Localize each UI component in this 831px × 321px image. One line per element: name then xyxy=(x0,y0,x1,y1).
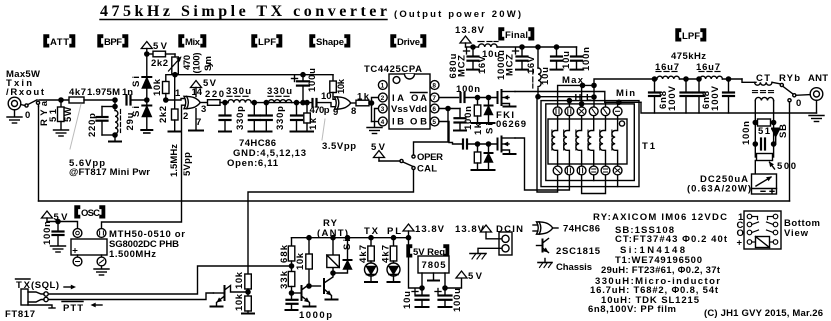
svg-text:100u: 100u xyxy=(452,288,463,312)
capacitor 220p xyxy=(97,107,116,136)
junction BPF tank xyxy=(113,98,117,102)
wire T1 output xyxy=(594,79,654,85)
svg-text:(0.63A/20W): (0.63A/20W) xyxy=(687,184,751,195)
capacitor 1000u MCZ 16V xyxy=(516,47,528,70)
transistor Q5 FKI06269 (ch2) xyxy=(498,137,516,155)
resistor 1k (gate ch2) xyxy=(472,144,484,170)
svg-text:330p: 330p xyxy=(235,106,246,130)
svg-text:1.5MHz: 1.5MHz xyxy=(169,144,180,177)
inductor 29u xyxy=(115,107,121,136)
transistor Q1 2SC1815 xyxy=(214,286,249,307)
svg-text:MCZ: MCZ xyxy=(505,54,516,76)
svg-text:BPF: BPF xyxy=(104,37,122,48)
svg-text:/Rxout: /Rxout xyxy=(6,87,45,98)
svg-text:5Vpp: 5Vpp xyxy=(182,152,193,176)
power 5V at mix pin 14 xyxy=(191,81,202,97)
svg-text:Final: Final xyxy=(505,30,528,41)
svg-text:74HC86: 74HC86 xyxy=(563,224,600,235)
section label BPF xyxy=(98,35,128,48)
wire CT secondary right xyxy=(773,101,775,158)
capacitor 470p xyxy=(313,99,337,107)
relay bottom view contacts xyxy=(747,214,778,244)
capacitor 330p #2 xyxy=(249,103,260,131)
pin 6 xyxy=(430,104,439,113)
svg-text:1.975M: 1.975M xyxy=(87,87,120,98)
junction pot bottom xyxy=(173,73,177,77)
junction xyxy=(420,286,424,290)
meter DC250uA xyxy=(752,161,777,195)
wire xyxy=(680,78,698,80)
svg-text:5W: 5W xyxy=(63,107,74,122)
junction xyxy=(520,45,524,49)
wire RYa to attenuator xyxy=(39,99,69,101)
op-gate U1a 74HC86 (Mix) xyxy=(184,96,200,108)
capacitor 100n (ch2) xyxy=(463,140,497,149)
capacitor 100u (electrolytic) xyxy=(297,75,309,103)
junction xyxy=(726,77,730,81)
resistor 4k7 (PL LED) xyxy=(390,238,397,263)
svg-text:16u7: 16u7 xyxy=(696,62,720,73)
junction Max xyxy=(580,83,584,87)
wire CAL contact to PTT line xyxy=(248,170,414,275)
svg-text:Vss: Vss xyxy=(391,104,408,115)
connector FT817 TX jack xyxy=(21,289,55,308)
svg-text:2k2: 2k2 xyxy=(158,106,169,123)
relay contact RYa xyxy=(25,100,40,107)
svg-text:SB: SB xyxy=(778,124,789,138)
svg-text:1.500MHz: 1.500MHz xyxy=(109,249,156,260)
legend transistor 2SC1815 xyxy=(537,239,550,255)
junction xyxy=(164,98,168,102)
arrow left xyxy=(91,303,103,308)
svg-text:1: 1 xyxy=(175,88,181,99)
svg-text:5V: 5V xyxy=(371,142,386,153)
ground at J1 xyxy=(7,117,22,123)
pin 7 xyxy=(430,93,439,102)
oscillator X1 body xyxy=(71,239,107,255)
wire T1 bottom routing xyxy=(582,175,606,194)
junction xyxy=(145,52,149,56)
transformer CT xyxy=(753,82,781,100)
inductor 330u #2 xyxy=(268,96,292,102)
wire ch2 drain to T1 xyxy=(515,138,569,190)
svg-text:Shape: Shape xyxy=(316,37,344,48)
svg-text:51: 51 xyxy=(48,108,59,122)
transformer T1 bottom terminals xyxy=(553,166,622,175)
svg-text:Chassis: Chassis xyxy=(556,262,592,273)
svg-text:475kHz Simple TX converter: 475kHz Simple TX converter xyxy=(100,3,387,20)
svg-text:68k: 68k xyxy=(279,244,290,263)
svg-text:100n: 100n xyxy=(42,221,53,245)
junction xyxy=(486,95,490,99)
resistor 500 trimmer xyxy=(757,154,773,161)
junction 1k shunt xyxy=(305,101,309,105)
ground at tank xyxy=(109,141,121,143)
resistor 4k7 xyxy=(69,97,114,103)
svg-text:View: View xyxy=(784,228,809,239)
transformer T1 outer loop xyxy=(541,101,639,187)
junction xyxy=(113,104,117,108)
svg-text:10k: 10k xyxy=(234,293,245,311)
diode SB xyxy=(772,129,779,145)
svg-text:OPER: OPER xyxy=(417,152,443,163)
wire relay supply rail 13.8V xyxy=(292,237,409,239)
section label OSC xyxy=(75,206,105,219)
transformer T1 core box xyxy=(548,119,627,164)
wire 13.8V to 7805 xyxy=(409,238,423,288)
svg-text:Min: Min xyxy=(616,88,635,99)
pin 8 xyxy=(430,81,439,90)
title xyxy=(100,3,521,20)
pin 2 xyxy=(378,93,387,102)
junction xyxy=(294,101,298,105)
junction xyxy=(252,101,256,105)
svg-text:470p: 470p xyxy=(310,105,330,116)
svg-text:Open:6,11: Open:6,11 xyxy=(227,158,279,169)
wire DCIN ground xyxy=(478,248,502,253)
svg-text:14: 14 xyxy=(192,87,203,98)
svg-text:10: 10 xyxy=(321,91,332,102)
svg-text:LPF: LPF xyxy=(258,37,276,48)
label + xyxy=(464,48,470,54)
wire 5V out xyxy=(445,278,462,288)
capacitor 1n xyxy=(127,96,147,105)
section label Drive xyxy=(391,35,426,48)
svg-text:13.8V: 13.8V xyxy=(415,224,445,235)
svg-text:8: 8 xyxy=(351,106,356,117)
capacitor 100u (reg out) xyxy=(439,288,452,307)
resistor 33k xyxy=(288,272,295,300)
ground at OSC pin4 xyxy=(94,269,109,275)
power 5V (BPF bias) xyxy=(141,42,152,55)
svg-text:16V: 16V xyxy=(477,55,488,74)
capacitor 100n (ch1) xyxy=(461,93,497,102)
resistor 4k7 (TX LED) xyxy=(368,238,375,263)
wire J1 to RYa xyxy=(21,105,25,106)
transformer T1 top terminals xyxy=(553,107,622,116)
svg-text:4k7: 4k7 xyxy=(381,245,392,263)
pin 5 xyxy=(97,229,106,238)
svg-text:(100): (100) xyxy=(192,53,203,74)
junction xyxy=(307,284,311,288)
svg-text:10k: 10k xyxy=(336,78,347,94)
diode Si (gate ch2) xyxy=(483,144,495,170)
svg-text:6: 6 xyxy=(432,106,436,113)
wire to IA and IB xyxy=(372,98,379,122)
inductor 10u (rail choke) xyxy=(478,42,498,48)
junction L xyxy=(592,95,596,99)
junction xyxy=(289,264,293,268)
svg-text:10k: 10k xyxy=(295,252,306,270)
svg-text:1: 1 xyxy=(381,83,385,90)
junction xyxy=(753,142,757,146)
svg-text:51: 51 xyxy=(758,126,771,137)
junction xyxy=(536,95,540,99)
junction xyxy=(475,142,479,146)
power 13.8V (relay) xyxy=(403,224,414,238)
op-gate U1b 74HC86 (Shape) xyxy=(335,97,351,109)
section label Shape xyxy=(310,35,350,48)
resistor 10k (Q2 collector) xyxy=(306,238,313,269)
ground at Q1 emitter xyxy=(211,306,223,308)
resistor 1k (gate ch1) xyxy=(472,98,484,124)
label + xyxy=(513,48,519,54)
junction xyxy=(446,106,450,110)
relay bottom view box xyxy=(744,211,781,249)
ground at Vss xyxy=(367,128,382,134)
relay coil (bottom view) xyxy=(756,237,770,248)
junction xyxy=(345,236,349,240)
diode Si (gate ch1) xyxy=(483,98,495,124)
svg-text:220p: 220p xyxy=(87,113,98,137)
junction xyxy=(652,77,656,81)
section label LPF xyxy=(252,35,282,48)
label + xyxy=(412,289,418,295)
svg-text:Si: Si xyxy=(131,106,142,117)
svg-text:PTT: PTT xyxy=(63,303,83,314)
transistor Q2 2SC1815 xyxy=(292,270,312,307)
wire 5V to OSC pin 8 xyxy=(47,222,78,229)
transformer T1 inner loop xyxy=(546,104,635,181)
wire mix pin 7 to ground xyxy=(195,109,197,130)
svg-text:@FT817 Mini Pwr: @FT817 Mini Pwr xyxy=(69,167,150,178)
wire Max tap xyxy=(558,85,594,107)
svg-text:16V: 16V xyxy=(526,55,537,74)
svg-text:2: 2 xyxy=(381,95,385,102)
junction xyxy=(145,98,149,102)
legend gate 74HC86 xyxy=(533,222,558,234)
svg-text:(C) JH1 GVY 2015, Mar.26: (C) JH1 GVY 2015, Mar.26 xyxy=(704,308,823,319)
junction xyxy=(59,98,63,102)
pin 4 xyxy=(97,255,106,269)
wire RX bypass down xyxy=(38,107,40,202)
pin 3 xyxy=(378,104,387,113)
wire 5V to switch pole xyxy=(379,160,400,162)
svg-text:(Output power 20W): (Output power 20W) xyxy=(394,9,521,20)
section label ATT xyxy=(44,35,75,48)
svg-text:330p: 330p xyxy=(275,106,286,130)
callout line to 5.6Vpp xyxy=(70,104,81,149)
svg-text:Drive: Drive xyxy=(397,37,420,48)
wire xyxy=(722,78,742,80)
svg-text:2k2: 2k2 xyxy=(151,58,168,69)
junction xyxy=(697,77,701,81)
svg-text:220: 220 xyxy=(205,89,224,100)
wire LPF ground bus xyxy=(641,102,817,113)
capacitor 100n (OSC) xyxy=(53,222,64,246)
transistor Q4 FKI06269 (ch1) xyxy=(498,90,516,107)
svg-text:330u: 330u xyxy=(267,86,292,97)
svg-text:100n: 100n xyxy=(741,121,752,145)
capacitor 330p #4 xyxy=(291,103,303,132)
svg-text:ATT: ATT xyxy=(50,37,69,48)
svg-text:Vdd: Vdd xyxy=(409,104,427,115)
wire mix output xyxy=(200,102,207,104)
junction H xyxy=(580,102,584,106)
svg-text:FT817: FT817 xyxy=(5,309,35,320)
wire pin5 OB to ch2 xyxy=(439,122,462,145)
resistor 10k (upper divider) xyxy=(245,274,252,296)
svg-text:330u: 330u xyxy=(226,86,251,97)
capacitor 680u MCZ 16V xyxy=(467,47,479,70)
diode Si (flyback) xyxy=(333,238,352,273)
svg-text:RY:AXICOM IM06 12VDC: RY:AXICOM IM06 12VDC xyxy=(593,212,727,223)
diode Si (clip lower) xyxy=(141,100,152,133)
capacitor 6n8 100V #1 xyxy=(649,79,660,113)
wire T1 feed to L tap xyxy=(537,88,539,97)
label + xyxy=(435,289,441,295)
svg-text:4k7: 4k7 xyxy=(358,245,369,263)
inductor 16u7 #1 xyxy=(656,72,679,80)
label TX (SQL) with overline xyxy=(16,279,60,291)
svg-text:1k: 1k xyxy=(308,117,319,130)
svg-text:OSC: OSC xyxy=(81,208,100,219)
potentiometer 470 (100) Sym xyxy=(169,54,184,74)
ground at Q3 emitter xyxy=(326,299,338,301)
ground at 7805 xyxy=(428,280,439,282)
junction xyxy=(592,83,596,87)
resistor 68k xyxy=(288,238,295,272)
label OA (inverted) xyxy=(411,93,428,105)
junction 100u top xyxy=(301,73,305,77)
inductor 16u7 #2 xyxy=(699,72,722,80)
power 5V (oper/cal) xyxy=(374,151,385,162)
connector J1 Txin xyxy=(8,97,21,116)
pin 4 xyxy=(378,117,387,126)
wire pin3 Vss to ground xyxy=(375,109,379,127)
svg-text:4k7: 4k7 xyxy=(69,87,86,98)
junction 100u bottom xyxy=(301,101,305,105)
wire 13.8V rail xyxy=(466,46,479,48)
svg-text:Mix: Mix xyxy=(185,37,201,48)
svg-text:100n: 100n xyxy=(581,47,592,71)
LED TX xyxy=(365,263,378,282)
wire tank to ground xyxy=(114,135,116,141)
svg-text:33k: 33k xyxy=(279,270,290,289)
wire shape out xyxy=(351,102,356,104)
svg-text:7: 7 xyxy=(432,95,436,102)
resistor 10k (bias) xyxy=(163,75,176,100)
resistor 10k (shape bias) xyxy=(330,75,337,100)
junction Min xyxy=(617,100,621,104)
svg-text:1k: 1k xyxy=(357,92,370,103)
svg-text:475kHz: 475kHz xyxy=(671,51,706,62)
LED PL xyxy=(387,263,400,282)
svg-text:CAL: CAL xyxy=(417,164,437,175)
svg-text:10k: 10k xyxy=(234,271,245,289)
capacitor 100n (Vdd bypass) xyxy=(454,109,466,131)
svg-text:ANT: ANT xyxy=(808,73,828,84)
label + polarity mark xyxy=(73,249,77,253)
resistor 51 5W xyxy=(58,100,65,129)
wire tank stem xyxy=(114,100,116,107)
op-amp U2 TC4425CPA body xyxy=(389,74,430,129)
svg-text:10u: 10u xyxy=(402,291,413,309)
svg-text:10k: 10k xyxy=(152,78,163,96)
junction xyxy=(486,142,490,146)
relay contact RYb xyxy=(780,83,796,102)
resistor 2k2 (shunt) xyxy=(169,75,182,132)
svg-text:1k: 1k xyxy=(473,122,484,135)
svg-text:3.5Vpp: 3.5Vpp xyxy=(322,141,356,152)
wire Min line xyxy=(605,101,641,103)
capacitor 6n8 #3 xyxy=(694,79,705,113)
junction xyxy=(471,45,475,49)
label + xyxy=(292,76,298,82)
svg-text:06269: 06269 xyxy=(496,119,526,130)
wire LPF out xyxy=(297,102,313,104)
node Max5W Txin/Rxout xyxy=(6,69,45,98)
ground at Q2 emitter xyxy=(304,306,316,308)
resistor 51 (meter shunt) xyxy=(758,119,771,126)
wire mix input 2 from OSC xyxy=(102,105,186,228)
resistor 220 xyxy=(208,100,229,106)
wire pin6 Vdd xyxy=(439,108,460,110)
power 13.8V (DCIN) xyxy=(481,225,492,232)
chassis ground DCIN xyxy=(470,254,486,260)
section label 5V Reg xyxy=(407,245,449,258)
capacitor 330p #1 xyxy=(219,103,231,132)
svg-text:7: 7 xyxy=(196,117,201,128)
svg-text:RYb: RYb xyxy=(779,73,800,84)
svg-text:Si: Si xyxy=(131,76,142,87)
label 500 with arrow xyxy=(767,160,774,169)
wire mix input 1 xyxy=(166,99,185,101)
inductor 10u (T1 feed) xyxy=(533,47,541,88)
regulator 7805 xyxy=(418,256,449,288)
wire feed down to T1 bottom xyxy=(537,97,558,192)
resistor 10k (lower divider) xyxy=(242,296,254,314)
ground at mix xyxy=(189,130,203,132)
connector DCIN xyxy=(499,232,512,255)
svg-text:100u: 100u xyxy=(307,68,318,92)
T1 riser pins xyxy=(568,101,570,107)
junction loop/pin2 xyxy=(567,99,571,103)
junction xyxy=(264,101,268,105)
svg-text:100V: 100V xyxy=(667,85,678,111)
svg-text:13.8V: 13.8V xyxy=(455,224,485,235)
svg-text:16u7: 16u7 xyxy=(655,62,679,73)
capacitor 330p #3 xyxy=(249,103,272,132)
wire to CT xyxy=(742,79,756,82)
svg-text:MCZ: MCZ xyxy=(457,55,468,77)
junction xyxy=(753,120,757,124)
ground at ANT xyxy=(809,116,824,122)
svg-text:6n8,100V: PP film: 6n8,100V: PP film xyxy=(588,304,676,315)
wire bias rail to shape xyxy=(175,74,333,76)
pin 1 xyxy=(73,255,82,266)
svg-text:Si: Si xyxy=(342,239,353,250)
svg-text:29uH: FT23#61, Φ0.2, 37t: 29uH: FT23#61, Φ0.2, 37t xyxy=(601,265,721,276)
ground at 51 xyxy=(54,130,69,136)
svg-text:5V: 5V xyxy=(153,41,168,52)
junction xyxy=(536,45,540,49)
junction xyxy=(246,290,250,294)
capacitor 10u xyxy=(551,47,563,70)
section label Final xyxy=(499,28,534,41)
junction xyxy=(369,236,373,240)
svg-text:(SQL): (SQL) xyxy=(31,280,59,291)
svg-text:7805: 7805 xyxy=(422,260,447,271)
junction xyxy=(684,77,688,81)
diode Si (bias) xyxy=(142,54,151,100)
capacitor 100n (rail) xyxy=(571,47,583,70)
svg-text:1000p: 1000p xyxy=(299,310,332,321)
transistor Q3 2SC1815 xyxy=(324,268,333,300)
wire Q2 collector to Q3 base xyxy=(309,285,321,287)
arrow right xyxy=(64,285,76,290)
svg-text:+: + xyxy=(737,238,743,249)
